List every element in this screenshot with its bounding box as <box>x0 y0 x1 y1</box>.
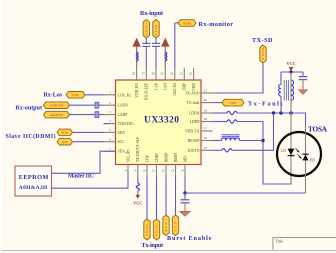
port X3OUTP <box>44 111 70 118</box>
pin 23 stub (top) <box>183 68 185 80</box>
ferrite bead on pin3 wire <box>95 112 99 118</box>
wire pin14 node to PD anode <box>185 192 306 194</box>
svg-text:LAP: LAP <box>154 83 158 90</box>
svg-text:12: 12 <box>161 169 165 173</box>
svg-text:IOUTN: IOUTN <box>188 149 200 153</box>
svg-text:25: 25 <box>161 72 165 76</box>
svg-text:Slave IIC(DDMI): Slave IIC(DDMI) <box>6 133 56 140</box>
svg-text:Rx-input: Rx-input <box>140 10 164 17</box>
ground symbol below capacitor <box>180 211 191 216</box>
svg-text:VDD_RX: VDD_RX <box>135 83 139 98</box>
power VCC (transformer top) <box>289 67 294 71</box>
junction dot LDDN/LD line <box>289 111 292 114</box>
svg-text:23: 23 <box>180 72 184 76</box>
svg-text:Title: Title <box>276 238 284 243</box>
wire EEPROM SCL to pin8 <box>52 170 129 188</box>
svg-text:TX-ADO: TX-ADO <box>185 92 200 96</box>
svg-text:18: 18 <box>204 117 208 121</box>
svg-text:21: 21 <box>204 89 208 93</box>
light arrow 1 LD to PD <box>296 149 299 152</box>
port SCL <box>57 138 73 145</box>
svg-text:6: 6 <box>109 137 111 141</box>
pin 13 stub (bottom) <box>175 165 177 177</box>
wire pin15 segment <box>213 149 223 151</box>
svg-text:SDA: SDA <box>118 131 126 135</box>
svg-text:Rx-output: Rx-output <box>16 106 43 112</box>
pin 7 stub (left) <box>104 150 116 152</box>
svg-text:10: 10 <box>142 169 146 173</box>
svg-text:24: 24 <box>170 72 174 76</box>
power arrow VCC (supply) <box>164 44 166 68</box>
svg-text:TX-SD: TX-SD <box>252 37 273 44</box>
wire left winding top <box>280 72 282 85</box>
wire pin16 segment <box>213 140 222 142</box>
port BEN- <box>172 215 178 236</box>
wire pin20 to TXF <box>213 102 223 104</box>
svg-text:RX-SLEEP: RX-SLEEP <box>145 83 149 100</box>
svg-text:LDDI: LDDI <box>155 153 159 162</box>
wire left winding bottom <box>280 96 282 113</box>
IC U1 UX3320 body <box>116 80 202 165</box>
capacitor C on RXIN- line <box>155 38 157 43</box>
power VCC (down) <box>135 195 140 199</box>
svg-text:LADP: LADP <box>118 113 128 117</box>
capacitor C on RXIN+ line <box>145 38 147 43</box>
svg-text:Master IIC: Master IIC <box>68 174 94 180</box>
junction dot LDDN/IOUTN <box>272 111 275 114</box>
pin 6 stub (left) <box>104 141 116 143</box>
ferrite bead on pin2 wire <box>95 102 99 108</box>
pin 27 stub (top) <box>145 68 147 80</box>
transformer T1 core <box>283 80 285 101</box>
wire pin3 to port X3OUTP <box>70 114 104 116</box>
port RXM (Rx-monitor) <box>178 20 196 27</box>
resistor R on pin9 line <box>137 177 139 184</box>
pin 19 stub (right) <box>201 112 213 114</box>
svg-text:UX3320: UX3320 <box>144 115 179 126</box>
power arrow VCC (supply) <box>136 44 138 68</box>
svg-text:11: 11 <box>152 169 155 173</box>
inductor L on supply line <box>165 52 167 61</box>
svg-text:Tx-input: Tx-input <box>142 242 164 249</box>
wire EEPROM SDA to pin7 <box>52 151 116 173</box>
pin 8 stub (bottom) <box>127 165 129 177</box>
svg-text:A0H&A2H: A0H&A2H <box>19 185 48 191</box>
svg-text:SCL_E: SCL_E <box>126 151 130 162</box>
svg-text:28: 28 <box>132 72 136 76</box>
transformer T1 right winding <box>291 80 294 100</box>
svg-text:LD: LD <box>281 148 286 153</box>
wire LDDN net to PD cathode <box>237 113 306 125</box>
pin 28 stub (top) <box>136 68 138 80</box>
svg-text:22: 22 <box>189 72 193 76</box>
LD feed line through transformer right winding <box>290 72 292 184</box>
svg-text:TXF: TXF <box>230 101 237 105</box>
port RXIN+ (Rx-input) <box>143 20 149 39</box>
svg-text:Rx-monitor: Rx-monitor <box>199 21 234 28</box>
svg-text:X3OUTN: X3OUTN <box>50 103 64 107</box>
pin 14 stub (bottom) <box>184 165 186 177</box>
wire pin18 segment <box>213 121 228 123</box>
svg-text:BEN+: BEN+ <box>164 219 168 232</box>
svg-text:SCL: SCL <box>62 140 68 144</box>
pin 20 stub (right) <box>201 102 213 104</box>
wire pin1 to LOS port <box>85 94 104 96</box>
port TXIN- <box>153 219 159 240</box>
wire pin4 stub <box>104 123 110 125</box>
svg-text:BRDP: BRDP <box>164 153 168 162</box>
svg-text:LADN: LADN <box>118 104 129 108</box>
pin 16 stub (right) <box>201 140 213 142</box>
junction dot VCC rail <box>289 70 292 73</box>
pin 25 stub (top) <box>164 68 166 80</box>
svg-text:MD: MD <box>183 156 187 162</box>
pin 4 stub (left) <box>104 123 116 125</box>
wire IOUTN to LDDN net <box>232 113 274 150</box>
pin 9 stub (bottom) <box>137 165 139 177</box>
port TXF <box>222 99 244 106</box>
port SDA <box>57 129 73 136</box>
svg-text:SDA: SDA <box>61 131 68 135</box>
wire pin14 down <box>184 177 186 194</box>
resistor R (LDDN) <box>227 111 237 114</box>
svg-text:1: 1 <box>109 90 111 94</box>
svg-text:TOSA: TOSA <box>308 125 328 133</box>
svg-text:19: 19 <box>204 109 208 113</box>
EEPROM U2 <box>15 166 52 196</box>
wire pin2 to port X3OUTN <box>70 104 104 106</box>
wire cap to IC pin <box>145 46 147 68</box>
wire pin11 to Tx-input- port <box>156 177 158 220</box>
pin 22 stub (top) <box>193 68 195 80</box>
pin 15 stub (right) <box>201 149 213 151</box>
wire VCC rail <box>281 71 303 73</box>
svg-text:VDD: VDD <box>192 83 196 91</box>
svg-text:X3OUTP: X3OUTP <box>50 113 63 117</box>
wire pin6 to port SCL <box>73 141 104 143</box>
port BEN+ <box>163 215 169 236</box>
wire pin12 to Burst Enable+ port <box>165 177 167 216</box>
pin 2 stub (left) <box>104 104 116 106</box>
resistor R (LDDP) <box>227 120 237 123</box>
pin 1 stub (left) <box>104 94 116 96</box>
title block <box>273 238 336 250</box>
svg-text:ADC-IN: ADC-IN <box>173 83 177 96</box>
svg-text:20: 20 <box>204 98 208 102</box>
svg-text:TXIN+: TXIN+ <box>145 223 149 236</box>
pin 26 stub (top) <box>155 68 157 80</box>
port LOS <box>66 92 85 99</box>
pin 18 stub (right) <box>201 121 213 123</box>
svg-text:Burst Enable: Burst Enable <box>167 235 212 242</box>
pin 24 stub (top) <box>174 68 176 80</box>
TOSA circle <box>277 132 321 176</box>
wire pin10 to Tx-input+ port <box>146 177 148 220</box>
svg-text:SCL: SCL <box>118 140 126 144</box>
junction dot LDDN/transformer <box>279 111 282 114</box>
port TXIN+ <box>144 219 150 240</box>
svg-text:LAN: LAN <box>164 83 168 91</box>
svg-text:LDDN: LDDN <box>189 112 200 116</box>
junction dot LDDP/BEASP <box>261 139 264 142</box>
inductor L on supply line <box>137 52 139 61</box>
svg-text:VCC: VCC <box>133 201 142 206</box>
pin 11 stub (bottom) <box>156 165 158 177</box>
svg-text:TX-fault: TX-fault <box>186 101 200 105</box>
svg-text:VDD-DIG: VDD-DIG <box>118 122 134 126</box>
svg-text:LDP: LDP <box>145 155 149 162</box>
svg-text:RXM: RXM <box>183 21 190 25</box>
svg-text:TX-DIS/TX-SLP: TX-DIS/TX-SLP <box>136 137 140 162</box>
pin 21 stub (right) <box>201 92 213 94</box>
laser diode LD <box>288 149 295 156</box>
svg-text:14: 14 <box>180 169 184 173</box>
pin 12 stub (bottom) <box>165 165 167 177</box>
wire pin5 to port SDA <box>73 131 104 133</box>
svg-text:Rx-Los: Rx-Los <box>44 93 63 99</box>
svg-text:17: 17 <box>204 127 208 131</box>
capacitor C below pin14 node <box>184 193 186 200</box>
wire pin21 to TX-SD <box>213 63 264 93</box>
svg-text:EEPROM: EEPROM <box>19 174 49 181</box>
pin 10 stub (bottom) <box>146 165 148 177</box>
svg-text:26: 26 <box>151 72 155 76</box>
capacitor C (VCC decoupling) <box>302 72 304 76</box>
svg-text:VCC: VCC <box>286 61 295 66</box>
svg-text:16: 16 <box>204 136 208 140</box>
svg-text:5: 5 <box>109 128 111 132</box>
pin 17 stub (right) <box>201 130 213 132</box>
port RXIN- (Rx-input) <box>153 20 159 39</box>
wire Rx-monitor to pin 24 <box>175 23 178 68</box>
resistor R (IOUTN) <box>222 149 232 152</box>
PD line vertical <box>305 125 307 193</box>
svg-text:LOS_KL: LOS_KL <box>118 93 133 97</box>
photodiode PD <box>302 155 308 161</box>
svg-text:Tx-Fault: Tx-Fault <box>248 101 283 108</box>
port TXSD <box>260 45 266 63</box>
svg-text:BEASP: BEASP <box>188 139 200 143</box>
svg-text:RXIN+: RXIN+ <box>145 23 149 36</box>
port X3OUTN <box>44 102 70 109</box>
svg-text:LDDP: LDDP <box>190 120 200 124</box>
sheet bottom border <box>0 251 336 253</box>
svg-text:27: 27 <box>142 72 146 76</box>
wire BEASP to junction <box>240 140 264 142</box>
transformer T1 left winding <box>279 85 281 97</box>
light arrow 2 LD to PD <box>298 155 301 158</box>
wire LDDP to LD cathode <box>237 122 291 185</box>
wire pin19 segment <box>213 112 228 114</box>
svg-text:BRDS: BRDS <box>174 153 178 162</box>
svg-text:VDD-TX: VDD-TX <box>185 130 200 134</box>
wire pin13 to Burst Enable- port <box>175 177 177 216</box>
svg-text:PD: PD <box>310 158 315 163</box>
svg-text:RXIN-: RXIN- <box>154 23 158 36</box>
ground symbol (VCC cap) <box>299 90 308 95</box>
svg-text:13: 13 <box>171 169 175 173</box>
svg-text:TXIN-: TXIN- <box>155 224 159 237</box>
svg-text:3: 3 <box>109 110 111 114</box>
pin 5 stub (left) <box>104 131 116 133</box>
svg-text:15: 15 <box>204 146 208 150</box>
junction dot pin14 node <box>183 191 186 194</box>
svg-text:4: 4 <box>109 119 111 123</box>
inductor L (BEASP) with core bars <box>222 134 240 136</box>
svg-text:2: 2 <box>109 101 111 105</box>
svg-text:LOS: LOS <box>72 93 79 97</box>
svg-text:7: 7 <box>109 147 111 151</box>
wire cap to IC pin <box>155 46 157 68</box>
pin 3 stub (left) <box>104 114 116 116</box>
svg-text:BRP: BRP <box>183 83 187 90</box>
